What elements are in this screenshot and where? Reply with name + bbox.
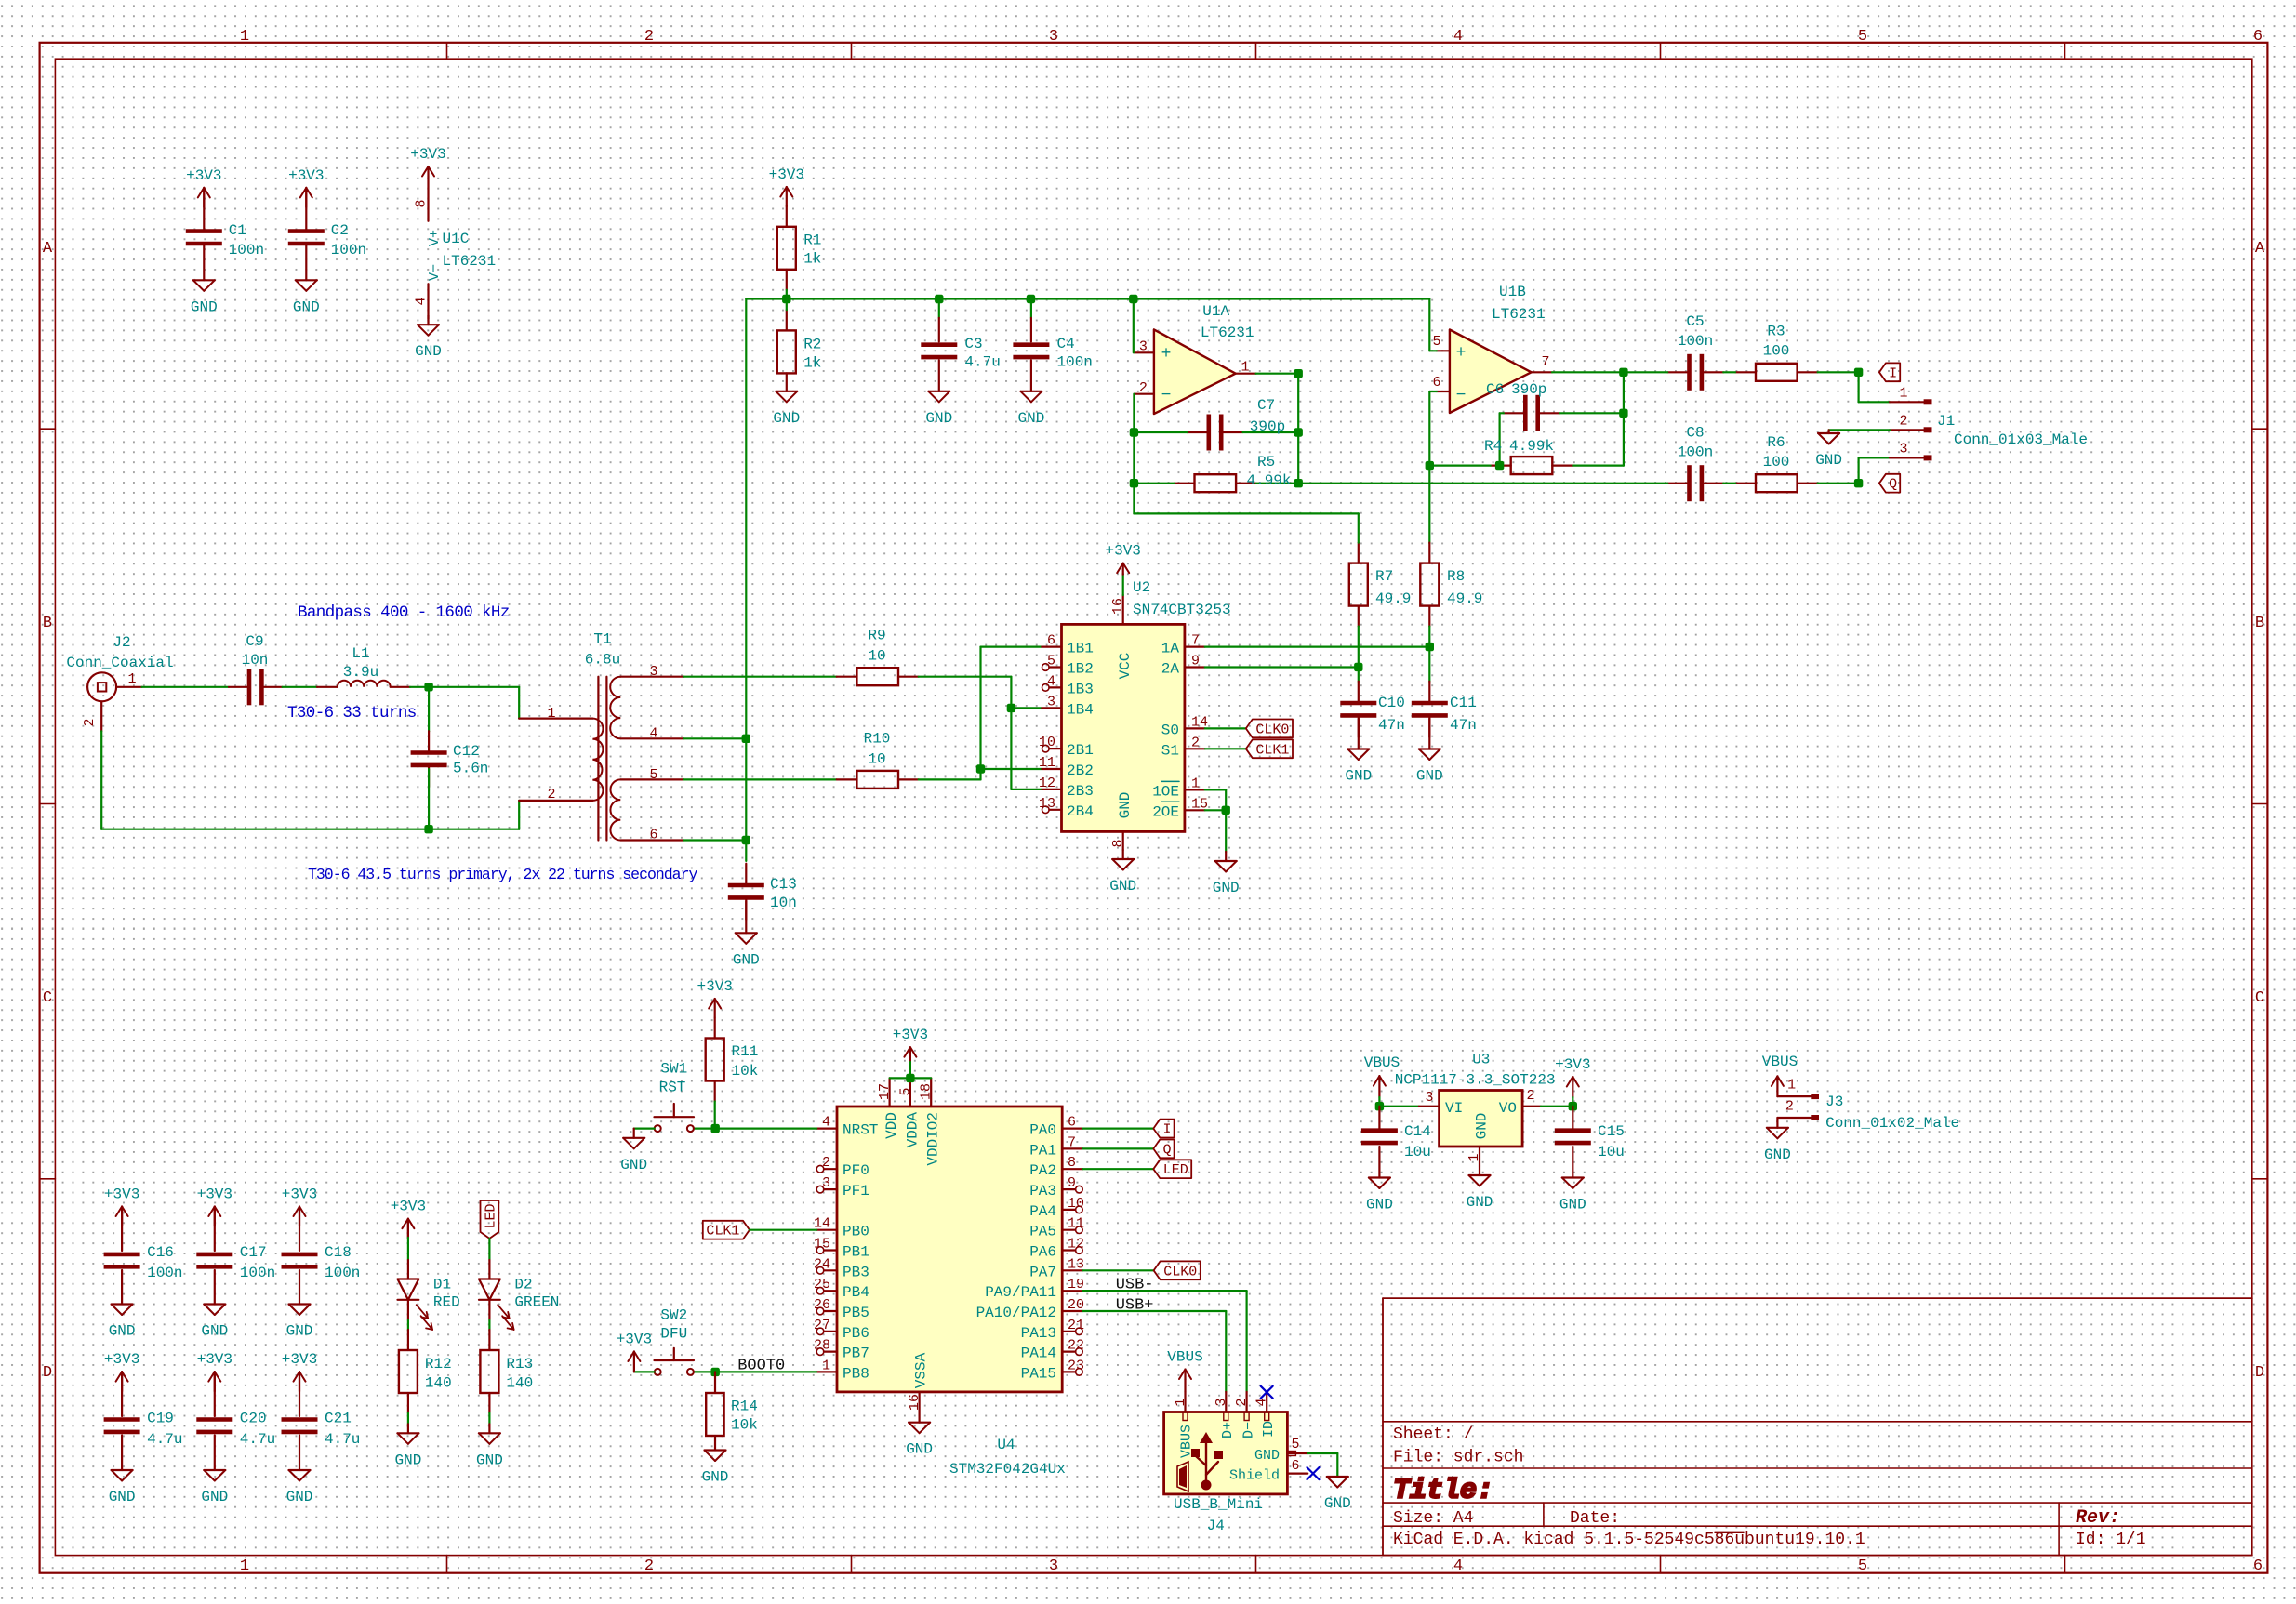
svg-text:GND: GND	[201, 1489, 228, 1505]
svg-text:T1: T1	[593, 631, 611, 648]
svg-text:27: 27	[814, 1318, 830, 1333]
svg-text:C21: C21	[325, 1411, 352, 1427]
svg-text:7: 7	[1191, 633, 1200, 649]
svg-text:1B1: 1B1	[1067, 641, 1094, 657]
svg-text:−: −	[1456, 387, 1467, 405]
svg-text:1: 1	[1899, 385, 1907, 401]
svg-text:CLK0: CLK0	[1255, 722, 1289, 737]
svg-text:GND: GND	[1117, 792, 1134, 819]
svg-text:3: 3	[1139, 339, 1148, 355]
svg-text:+3V3: +3V3	[282, 1186, 317, 1203]
svg-text:3: 3	[1214, 1398, 1229, 1406]
svg-text:2B1: 2B1	[1067, 742, 1094, 759]
svg-text:V+: V+	[427, 230, 443, 246]
svg-text:C9: C9	[246, 633, 263, 650]
svg-text:Conn_01x02_Male: Conn_01x02_Male	[1825, 1115, 1959, 1132]
svg-text:R4: R4	[1484, 438, 1502, 455]
svg-text:1B2: 1B2	[1067, 661, 1094, 678]
svg-text:8: 8	[414, 199, 430, 207]
svg-text:L1: L1	[352, 645, 369, 662]
svg-text:1: 1	[1787, 1077, 1796, 1093]
svg-text:10n: 10n	[770, 895, 797, 911]
svg-text:1: 1	[240, 1558, 249, 1575]
svg-text:100n: 100n	[229, 242, 264, 258]
svg-text:GND: GND	[286, 1489, 313, 1505]
svg-text:4.99k: 4.99k	[1247, 472, 1292, 489]
svg-text:49.9: 49.9	[1447, 590, 1482, 607]
svg-text:390p: 390p	[1250, 418, 1285, 435]
svg-text:PA0: PA0	[1029, 1122, 1056, 1139]
svg-text:2: 2	[1899, 413, 1907, 429]
svg-text:C16: C16	[147, 1244, 174, 1261]
svg-text:GND: GND	[620, 1157, 647, 1173]
svg-text:6: 6	[2253, 1558, 2263, 1575]
svg-text:3: 3	[1049, 1558, 1058, 1575]
svg-text:VDD: VDD	[883, 1112, 900, 1139]
svg-text:4.99k: 4.99k	[1509, 438, 1554, 455]
svg-text:VCC: VCC	[1117, 653, 1134, 680]
svg-text:U1A: U1A	[1202, 303, 1229, 320]
svg-text:4.7u: 4.7u	[147, 1431, 182, 1448]
svg-text:PF1: PF1	[843, 1183, 869, 1200]
svg-text:1: 1	[127, 671, 136, 687]
svg-text:PF0: PF0	[843, 1162, 869, 1179]
svg-text:D2: D2	[514, 1277, 532, 1293]
svg-text:2: 2	[822, 1155, 830, 1171]
svg-text:LED: LED	[483, 1203, 498, 1228]
svg-text:1B4: 1B4	[1067, 701, 1094, 718]
svg-text:VSSA: VSSA	[913, 1352, 930, 1388]
svg-text:3: 3	[1047, 694, 1055, 709]
svg-text:R7: R7	[1375, 568, 1393, 585]
svg-text:STM32F042G4Ux: STM32F042G4Ux	[949, 1461, 1066, 1478]
svg-text:49.9: 49.9	[1375, 590, 1411, 607]
svg-text:1: 1	[1467, 1153, 1482, 1161]
svg-text:S1: S1	[1161, 742, 1179, 759]
svg-text:4: 4	[1254, 1398, 1270, 1406]
svg-text:1: 1	[1241, 360, 1249, 376]
svg-text:+3V3: +3V3	[617, 1332, 652, 1348]
svg-text:D1: D1	[433, 1277, 451, 1293]
svg-text:GND: GND	[1467, 1194, 1493, 1211]
svg-text:+3V3: +3V3	[186, 167, 221, 184]
svg-text:GND: GND	[1109, 878, 1136, 895]
svg-text:J3: J3	[1825, 1094, 1843, 1110]
svg-text:Sheet: /: Sheet: /	[1393, 1425, 1473, 1444]
svg-text:+3V3: +3V3	[391, 1199, 426, 1215]
svg-text:15: 15	[814, 1237, 830, 1253]
svg-text:+: +	[1456, 344, 1467, 363]
svg-text:6: 6	[1068, 1115, 1076, 1131]
svg-text:100n: 100n	[325, 1265, 360, 1281]
svg-text:GND: GND	[201, 1323, 228, 1340]
svg-text:1: 1	[1191, 775, 1200, 791]
svg-text:D−: D−	[1241, 1422, 1257, 1438]
svg-text:+3V3: +3V3	[197, 1186, 232, 1203]
svg-text:PB4: PB4	[843, 1284, 869, 1301]
svg-text:1: 1	[1173, 1398, 1188, 1406]
svg-text:Date:: Date:	[1570, 1509, 1620, 1528]
svg-text:SN74CBT3253: SN74CBT3253	[1133, 602, 1231, 618]
svg-text:GND: GND	[293, 298, 320, 315]
svg-text:LED: LED	[1163, 1162, 1188, 1178]
svg-text:PB1: PB1	[843, 1244, 869, 1261]
svg-text:U3: U3	[1472, 1052, 1490, 1068]
svg-text:ID: ID	[1261, 1421, 1277, 1438]
svg-text:GND: GND	[1416, 768, 1443, 785]
svg-text:LT6231: LT6231	[1201, 325, 1254, 341]
svg-text:100n: 100n	[240, 1265, 275, 1281]
svg-text:100n: 100n	[1057, 353, 1093, 370]
svg-text:GND: GND	[1254, 1448, 1280, 1464]
svg-text:C1: C1	[229, 222, 246, 239]
svg-text:Q: Q	[1889, 477, 1897, 493]
svg-text:10k: 10k	[731, 1417, 758, 1434]
svg-text:6: 6	[649, 827, 657, 842]
svg-text:10: 10	[1039, 735, 1055, 750]
svg-text:CLK1: CLK1	[706, 1224, 739, 1239]
svg-text:10: 10	[868, 648, 885, 665]
svg-text:Conn_Coaxial: Conn_Coaxial	[66, 655, 173, 671]
svg-text:4.7u: 4.7u	[325, 1431, 360, 1448]
svg-text:D+: D+	[1220, 1422, 1236, 1438]
svg-text:J1: J1	[1937, 413, 1955, 430]
svg-text:2: 2	[1234, 1398, 1250, 1406]
svg-text:GND: GND	[109, 1323, 136, 1340]
svg-text:1A: 1A	[1161, 641, 1180, 657]
svg-text:4.7u: 4.7u	[964, 353, 1000, 370]
svg-text:C20: C20	[240, 1411, 267, 1427]
svg-text:SW1: SW1	[660, 1061, 687, 1078]
svg-text:1: 1	[240, 28, 249, 46]
svg-text:21: 21	[1068, 1318, 1084, 1333]
svg-text:GND: GND	[191, 298, 218, 315]
svg-text:GND: GND	[1764, 1147, 1791, 1163]
svg-text:GND: GND	[733, 951, 760, 968]
svg-text:+3V3: +3V3	[1555, 1056, 1590, 1073]
svg-text:C13: C13	[770, 876, 797, 893]
svg-text:U4: U4	[997, 1437, 1015, 1453]
svg-text:R2: R2	[803, 336, 821, 352]
svg-text:A: A	[2255, 240, 2265, 258]
svg-text:26: 26	[814, 1297, 830, 1313]
svg-text:GND: GND	[906, 1441, 933, 1458]
svg-text:Q: Q	[1162, 1142, 1171, 1158]
svg-text:5: 5	[1858, 1558, 1867, 1575]
svg-text:6: 6	[2253, 28, 2263, 46]
svg-text:10k: 10k	[732, 1063, 759, 1080]
svg-text:U2: U2	[1133, 579, 1150, 596]
svg-text:Id: 1/1: Id: 1/1	[2076, 1531, 2146, 1549]
svg-text:+3V3: +3V3	[893, 1027, 928, 1043]
svg-text:PA2: PA2	[1029, 1162, 1056, 1179]
svg-text:J4: J4	[1207, 1518, 1225, 1534]
svg-text:R6: R6	[1767, 434, 1785, 451]
svg-text:17: 17	[877, 1083, 893, 1100]
svg-text:LT6231: LT6231	[1492, 306, 1546, 323]
svg-text:2A: 2A	[1161, 661, 1180, 678]
svg-text:RED: RED	[433, 1294, 460, 1311]
svg-text:8: 8	[1110, 839, 1126, 847]
svg-text:T30-6 33 turns: T30-6 33 turns	[287, 704, 417, 722]
svg-text:6.8u: 6.8u	[585, 652, 620, 669]
svg-text:GND: GND	[1366, 1197, 1393, 1213]
svg-text:PB3: PB3	[843, 1264, 869, 1280]
svg-text:100n: 100n	[1678, 333, 1713, 350]
svg-text:PA6: PA6	[1029, 1244, 1056, 1261]
svg-text:100: 100	[1763, 454, 1790, 471]
svg-text:B: B	[43, 615, 52, 632]
svg-text:R13: R13	[506, 1356, 533, 1372]
svg-text:A: A	[43, 240, 53, 258]
svg-text:C8: C8	[1686, 425, 1704, 442]
svg-text:C14: C14	[1404, 1123, 1431, 1140]
svg-text:GND: GND	[1815, 452, 1842, 469]
svg-text:+3V3: +3V3	[104, 1186, 139, 1203]
svg-text:−: −	[1161, 387, 1172, 405]
svg-text:C: C	[43, 989, 52, 1007]
svg-text:C15: C15	[1598, 1123, 1625, 1140]
svg-text:I: I	[1162, 1122, 1171, 1138]
svg-text:GND: GND	[394, 1452, 421, 1468]
svg-text:140: 140	[425, 1375, 452, 1392]
svg-text:5: 5	[1047, 654, 1055, 669]
svg-text:3: 3	[1049, 28, 1058, 46]
svg-text:NRST: NRST	[843, 1122, 878, 1139]
svg-text:11: 11	[1039, 755, 1055, 771]
svg-text:CLK1: CLK1	[1255, 742, 1289, 758]
svg-text:VBUS: VBUS	[1167, 1349, 1202, 1366]
svg-text:100: 100	[1763, 343, 1790, 360]
svg-text:U1B: U1B	[1499, 284, 1526, 300]
svg-text:5.6n: 5.6n	[453, 761, 488, 777]
svg-text:5: 5	[1432, 334, 1440, 350]
svg-text:R11: R11	[732, 1043, 759, 1060]
svg-text:+3V3: +3V3	[282, 1351, 317, 1368]
svg-text:13: 13	[1039, 796, 1055, 812]
svg-text:10: 10	[868, 750, 885, 767]
svg-text:16: 16	[907, 1394, 922, 1411]
svg-text:R10: R10	[864, 730, 891, 747]
svg-text:+3V3: +3V3	[1105, 543, 1140, 560]
svg-text:GND: GND	[109, 1489, 136, 1505]
svg-text:C19: C19	[147, 1411, 174, 1427]
svg-text:140: 140	[506, 1375, 533, 1392]
svg-text:PA5: PA5	[1029, 1224, 1056, 1240]
svg-text:2: 2	[82, 718, 98, 726]
svg-text:7: 7	[1541, 354, 1549, 370]
svg-text:10u: 10u	[1598, 1144, 1625, 1160]
svg-text:GND: GND	[1324, 1495, 1351, 1512]
svg-text:PB0: PB0	[843, 1224, 869, 1240]
svg-text:2: 2	[547, 787, 555, 802]
svg-text:VBUS: VBUS	[1762, 1054, 1798, 1070]
svg-text:C5: C5	[1686, 313, 1704, 330]
svg-text:2: 2	[1526, 1088, 1534, 1104]
svg-text:PA1: PA1	[1029, 1142, 1056, 1159]
svg-text:+: +	[1161, 345, 1172, 364]
svg-text:47n: 47n	[1450, 717, 1477, 734]
svg-text:4: 4	[822, 1115, 830, 1131]
svg-text:PA9/PA11: PA9/PA11	[985, 1284, 1056, 1301]
svg-text:PA13: PA13	[1021, 1325, 1056, 1342]
svg-text:10: 10	[1068, 1196, 1084, 1212]
svg-text:12: 12	[1068, 1237, 1084, 1253]
svg-text:T30-6 43.5 turns primary, 2x 2: T30-6 43.5 turns primary, 2x 22 turns se…	[308, 866, 697, 883]
svg-text:4: 4	[1453, 28, 1463, 46]
svg-text:C11: C11	[1450, 695, 1477, 711]
svg-text:Size: A4: Size: A4	[1393, 1509, 1473, 1528]
svg-text:1: 1	[822, 1358, 830, 1373]
svg-text:+3V3: +3V3	[769, 166, 804, 183]
svg-text:2B3: 2B3	[1067, 783, 1094, 800]
svg-text:5: 5	[649, 767, 657, 783]
svg-text:C12: C12	[453, 743, 480, 760]
svg-text:GND: GND	[286, 1323, 313, 1340]
svg-text:4: 4	[414, 297, 430, 305]
svg-text:RST: RST	[659, 1080, 686, 1096]
svg-text:GND: GND	[1345, 768, 1372, 785]
svg-text:4: 4	[1047, 673, 1055, 689]
svg-text:R5: R5	[1257, 454, 1275, 471]
svg-text:10u: 10u	[1404, 1144, 1431, 1160]
svg-text:GND: GND	[1213, 880, 1240, 896]
svg-text:C: C	[2255, 989, 2264, 1007]
svg-text:KiCad E.D.A. kicad 5.1.5-525: KiCad E.D.A. kicad 5.1.5-52549c586ubuntu…	[1393, 1531, 1865, 1549]
svg-text:22: 22	[1068, 1338, 1084, 1354]
svg-text:9: 9	[1068, 1175, 1076, 1191]
svg-text:NCP1117-3.3_SOT223: NCP1117-3.3_SOT223	[1395, 1071, 1556, 1088]
svg-text:Bandpass 400 - 1600 kHz: Bandpass 400 - 1600 kHz	[298, 603, 510, 622]
svg-text:GND: GND	[773, 410, 800, 427]
svg-text:PA10/PA12: PA10/PA12	[976, 1305, 1056, 1321]
svg-text:11: 11	[1068, 1216, 1084, 1232]
svg-text:C2: C2	[331, 222, 349, 239]
svg-text:PA3: PA3	[1029, 1183, 1056, 1200]
svg-text:R9: R9	[868, 628, 885, 644]
svg-text:+3V3: +3V3	[410, 146, 445, 163]
svg-text:C18: C18	[325, 1244, 352, 1261]
svg-text:6: 6	[1432, 375, 1440, 391]
svg-text:+3V3: +3V3	[104, 1351, 139, 1368]
svg-text:GND: GND	[476, 1452, 503, 1468]
svg-text:GND: GND	[1017, 410, 1044, 427]
svg-text:6: 6	[1047, 633, 1055, 649]
svg-text:8: 8	[1068, 1155, 1076, 1171]
svg-text:2: 2	[1139, 380, 1148, 396]
svg-text:1OE: 1OE	[1152, 783, 1179, 800]
svg-text:D: D	[43, 1364, 52, 1382]
svg-text:PA14: PA14	[1021, 1346, 1056, 1362]
svg-text:D: D	[2255, 1364, 2264, 1382]
svg-text:3: 3	[822, 1175, 830, 1191]
svg-text:2: 2	[644, 1558, 654, 1575]
svg-text:PB7: PB7	[843, 1346, 869, 1362]
svg-text:R3: R3	[1767, 324, 1785, 340]
svg-text:R14: R14	[731, 1398, 758, 1414]
svg-text:PA15: PA15	[1021, 1365, 1056, 1382]
svg-text:VBUS: VBUS	[1364, 1054, 1400, 1071]
svg-text:5: 5	[1858, 28, 1867, 46]
svg-text:C10: C10	[1378, 695, 1405, 711]
svg-text:VDDIO2: VDDIO2	[925, 1112, 942, 1166]
svg-text:C17: C17	[240, 1244, 267, 1261]
svg-text:VI: VI	[1445, 1100, 1463, 1117]
svg-text:File: sdr.sch: File: sdr.sch	[1393, 1449, 1523, 1467]
svg-text:3.9u: 3.9u	[343, 664, 378, 681]
svg-text:12: 12	[1039, 775, 1055, 791]
svg-text:U1C: U1C	[443, 231, 470, 247]
svg-text:CLK0: CLK0	[1163, 1264, 1197, 1279]
svg-text:USB_B_Mini: USB_B_Mini	[1174, 1496, 1263, 1513]
svg-text:24: 24	[814, 1256, 830, 1272]
svg-text:PA4: PA4	[1029, 1203, 1056, 1220]
svg-text:R1: R1	[803, 232, 821, 249]
svg-text:1k: 1k	[803, 354, 821, 371]
svg-text:7: 7	[1068, 1134, 1076, 1150]
svg-text:GND: GND	[702, 1469, 729, 1486]
svg-text:2OE: 2OE	[1152, 803, 1179, 820]
svg-text:S0: S0	[1161, 722, 1179, 738]
svg-text:2: 2	[644, 28, 654, 46]
svg-text:GND: GND	[925, 410, 952, 427]
svg-text:4: 4	[1453, 1558, 1463, 1575]
svg-text:4.7u: 4.7u	[240, 1431, 275, 1448]
svg-text:C3: C3	[964, 336, 982, 352]
svg-text:28: 28	[814, 1338, 830, 1354]
svg-text:6: 6	[1291, 1458, 1299, 1474]
svg-text:2B2: 2B2	[1067, 762, 1094, 779]
svg-text:VO: VO	[1499, 1100, 1517, 1117]
svg-text:1: 1	[547, 706, 555, 722]
svg-text:C7: C7	[1257, 397, 1275, 414]
svg-text:DFU: DFU	[660, 1326, 687, 1343]
svg-text:GREEN: GREEN	[514, 1294, 559, 1311]
svg-text:C4: C4	[1057, 336, 1075, 352]
svg-text:LT6231: LT6231	[443, 253, 497, 270]
svg-text:1B3: 1B3	[1067, 681, 1094, 697]
svg-text:Title:: Title:	[1393, 1476, 1493, 1507]
svg-text:PA7: PA7	[1029, 1264, 1056, 1280]
svg-text:GND: GND	[1474, 1113, 1491, 1140]
svg-text:Rev:: Rev:	[2076, 1507, 2120, 1529]
svg-text:9: 9	[1191, 654, 1200, 669]
svg-text:SW2: SW2	[660, 1307, 687, 1324]
svg-text:390p: 390p	[1511, 381, 1546, 398]
svg-text:18: 18	[919, 1083, 935, 1100]
svg-text:5: 5	[1291, 1437, 1299, 1452]
svg-text:100n: 100n	[1678, 444, 1713, 461]
svg-text:Shield: Shield	[1229, 1468, 1280, 1484]
svg-text:10n: 10n	[242, 652, 269, 669]
svg-text:100n: 100n	[147, 1265, 182, 1281]
svg-text:100n: 100n	[331, 242, 366, 258]
svg-text:16: 16	[1110, 598, 1126, 615]
svg-text:R8: R8	[1447, 568, 1465, 585]
svg-text:VDDA: VDDA	[904, 1112, 921, 1148]
svg-text:V−: V−	[427, 264, 443, 281]
svg-text:J2: J2	[113, 634, 130, 651]
svg-text:I: I	[1889, 365, 1897, 381]
svg-text:C6: C6	[1486, 381, 1504, 398]
svg-text:B: B	[2255, 615, 2264, 632]
svg-text:PB8: PB8	[843, 1365, 869, 1382]
svg-text:GND: GND	[1559, 1197, 1586, 1213]
svg-text:PB6: PB6	[843, 1325, 869, 1342]
svg-text:GND: GND	[415, 343, 442, 360]
svg-text:3: 3	[649, 664, 657, 680]
svg-text:25: 25	[814, 1277, 830, 1292]
